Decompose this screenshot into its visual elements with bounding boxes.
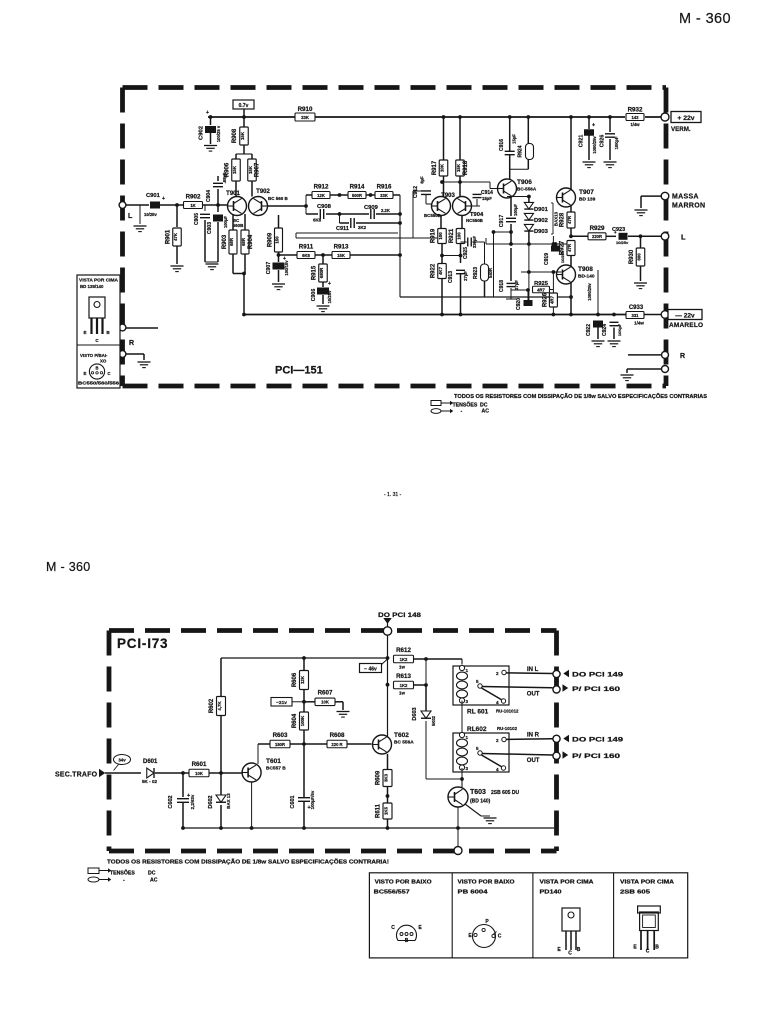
svg-text:560B: 560B bbox=[233, 223, 245, 228]
svg-text:C: C bbox=[498, 934, 502, 940]
svg-text:M - 360: M - 360 bbox=[46, 560, 90, 574]
svg-text:1K2: 1K2 bbox=[400, 657, 408, 662]
svg-text:D603: D603 bbox=[412, 707, 418, 720]
svg-text:C924: C924 bbox=[602, 324, 608, 336]
svg-text:C902: C902 bbox=[199, 126, 205, 140]
svg-text:33K: 33K bbox=[380, 193, 388, 198]
svg-text:1w: 1w bbox=[399, 691, 405, 696]
svg-text:VISTA POR CIMA: VISTA POR CIMA bbox=[620, 879, 675, 885]
svg-text:68R: 68R bbox=[241, 237, 246, 246]
svg-text:SEC.TRAFO: SEC.TRAFO bbox=[55, 772, 98, 779]
svg-text:VISTO POR BAIXO: VISTO POR BAIXO bbox=[458, 879, 515, 885]
svg-text:VISTO POR BAIXO: VISTO POR BAIXO bbox=[375, 879, 432, 885]
svg-text:15pF: 15pF bbox=[482, 196, 492, 201]
svg-text:C909: C909 bbox=[364, 205, 379, 211]
svg-text:RU-10102: RU-10102 bbox=[497, 726, 518, 731]
svg-text:R603: R603 bbox=[273, 732, 288, 739]
svg-text:1000/25v: 1000/25v bbox=[587, 283, 592, 301]
svg-text:220R: 220R bbox=[592, 234, 602, 239]
svg-text:R909: R909 bbox=[268, 232, 274, 247]
svg-text:L: L bbox=[681, 233, 686, 242]
svg-text:R910: R910 bbox=[298, 106, 313, 113]
svg-text:15µF: 15µF bbox=[512, 134, 517, 144]
svg-text:C911: C911 bbox=[336, 226, 349, 232]
svg-text:PD140: PD140 bbox=[540, 889, 562, 895]
svg-text:331: 331 bbox=[632, 313, 640, 318]
svg-text:33K: 33K bbox=[301, 115, 309, 120]
svg-text:1K5: 1K5 bbox=[384, 806, 389, 815]
svg-text:C907: C907 bbox=[266, 262, 272, 275]
svg-text:B: B bbox=[577, 947, 581, 953]
svg-text:TENSÕES: TENSÕES bbox=[110, 870, 135, 877]
svg-text:R919: R919 bbox=[431, 228, 437, 243]
svg-text:C901: C901 bbox=[146, 193, 161, 199]
svg-text:TENSÕES: TENSÕES bbox=[453, 402, 478, 409]
svg-text:600: 600 bbox=[637, 253, 642, 261]
svg-text:C921: C921 bbox=[579, 135, 585, 148]
svg-text:OUT: OUT bbox=[527, 692, 540, 698]
svg-text:5K - 02: 5K - 02 bbox=[142, 779, 158, 784]
svg-text:-: - bbox=[461, 409, 463, 415]
svg-text:0.7v: 0.7v bbox=[239, 103, 249, 109]
svg-text:C918: C918 bbox=[499, 280, 505, 292]
svg-text:MARRON: MARRON bbox=[672, 203, 705, 210]
svg-text:47K: 47K bbox=[173, 232, 178, 241]
svg-text:MASSA: MASSA bbox=[672, 194, 699, 201]
svg-text:1/4w: 1/4w bbox=[634, 321, 644, 326]
svg-text:R606: R606 bbox=[292, 672, 298, 687]
svg-text:BC-556A: BC-556A bbox=[517, 187, 537, 192]
svg-text:10KpF: 10KpF bbox=[617, 323, 622, 336]
svg-text:PB 6004: PB 6004 bbox=[458, 889, 488, 895]
svg-text:NC550B: NC550B bbox=[466, 218, 483, 223]
svg-text:B: B bbox=[95, 366, 98, 371]
svg-text:DO PCI 149: DO PCI 149 bbox=[572, 672, 624, 679]
svg-text:C916: C916 bbox=[499, 139, 505, 151]
svg-text:C913: C913 bbox=[448, 271, 454, 283]
svg-text:R918: R918 bbox=[463, 160, 469, 175]
svg-text:TODOS OS RESISTORES COM DISSIP: TODOS OS RESISTORES COM DISSIPAÇÃO DE 1/… bbox=[454, 393, 708, 400]
svg-text:2: 2 bbox=[496, 738, 499, 743]
svg-text:R911: R911 bbox=[299, 244, 314, 251]
svg-text:C904: C904 bbox=[206, 190, 212, 202]
svg-text:BD-140: BD-140 bbox=[578, 274, 595, 280]
svg-text:T908: T908 bbox=[578, 266, 593, 273]
svg-text:100K: 100K bbox=[300, 715, 305, 726]
svg-text:D601: D601 bbox=[143, 759, 158, 765]
svg-text:10K: 10K bbox=[440, 163, 445, 172]
svg-text:C908: C908 bbox=[317, 204, 332, 210]
svg-text:1: 1 bbox=[466, 735, 469, 740]
svg-text:27µF: 27µF bbox=[514, 280, 519, 290]
svg-text:15K: 15K bbox=[456, 163, 461, 172]
svg-text:10/25v: 10/25v bbox=[327, 290, 332, 303]
svg-text:R604: R604 bbox=[292, 713, 298, 728]
svg-text:100: 100 bbox=[438, 232, 443, 240]
svg-text:1w: 1w bbox=[399, 665, 405, 670]
svg-text:6K8: 6K8 bbox=[313, 218, 322, 223]
svg-text:R908: R908 bbox=[232, 128, 238, 143]
svg-text:T603: T603 bbox=[470, 789, 486, 796]
svg-text:PCI-I73: PCI-I73 bbox=[117, 636, 168, 651]
svg-text:220 R: 220 R bbox=[331, 742, 342, 747]
svg-text:3K3: 3K3 bbox=[384, 773, 389, 782]
svg-text:68R: 68R bbox=[229, 237, 234, 246]
svg-text:DO PCI 148: DO PCI 148 bbox=[378, 612, 421, 619]
svg-text:1: 1 bbox=[466, 668, 469, 673]
svg-text:R916: R916 bbox=[377, 184, 392, 191]
svg-text:540R: 540R bbox=[488, 268, 493, 278]
svg-text:1K2: 1K2 bbox=[400, 683, 408, 688]
svg-text:R923: R923 bbox=[473, 267, 479, 279]
svg-text:(BD 140): (BD 140) bbox=[470, 799, 491, 805]
svg-text:T601: T601 bbox=[266, 758, 281, 765]
svg-text:BD 139/140: BD 139/140 bbox=[80, 284, 104, 289]
svg-text:500R: 500R bbox=[352, 193, 362, 198]
svg-text:1000/25v: 1000/25v bbox=[592, 136, 597, 154]
svg-text:100µF: 100µF bbox=[223, 216, 228, 228]
svg-text:VISTO P/BAI-: VISTO P/BAI- bbox=[80, 353, 108, 358]
svg-text:10/25v: 10/25v bbox=[560, 250, 565, 263]
svg-text:4,7K: 4,7K bbox=[217, 701, 222, 711]
svg-text:143: 143 bbox=[632, 115, 640, 120]
svg-text:R907: R907 bbox=[255, 162, 261, 177]
svg-text:R912: R912 bbox=[314, 184, 329, 191]
svg-text:R613: R613 bbox=[396, 673, 411, 680]
svg-text:C933: C933 bbox=[629, 305, 644, 311]
svg-text:— 22v: — 22v bbox=[675, 313, 695, 320]
svg-text:T602: T602 bbox=[394, 732, 409, 739]
svg-text:10K: 10K bbox=[321, 700, 329, 705]
svg-text:R932: R932 bbox=[628, 107, 643, 114]
svg-text:R609: R609 bbox=[376, 770, 382, 785]
svg-text:T906: T906 bbox=[517, 179, 532, 186]
svg-text:4R7: 4R7 bbox=[549, 295, 554, 304]
svg-text:-: - bbox=[123, 878, 125, 884]
svg-text:100/10v: 100/10v bbox=[284, 260, 289, 276]
svg-text:100: 100 bbox=[457, 232, 462, 240]
svg-text:15K: 15K bbox=[248, 165, 253, 174]
svg-text:27µF: 27µF bbox=[463, 271, 468, 281]
svg-text:C922: C922 bbox=[586, 324, 592, 336]
svg-text:XO: XO bbox=[100, 359, 107, 364]
svg-text:4K7: 4K7 bbox=[438, 266, 443, 275]
svg-text:15K: 15K bbox=[240, 131, 245, 140]
svg-text:+ 22v: + 22v bbox=[677, 115, 694, 122]
svg-text:VISTA POR CIMA: VISTA POR CIMA bbox=[540, 879, 595, 885]
svg-text:10K: 10K bbox=[195, 771, 203, 776]
svg-text:2,2/63v: 2,2/63v bbox=[190, 794, 195, 809]
svg-text:+: + bbox=[162, 196, 165, 202]
svg-text:1K: 1K bbox=[190, 203, 195, 208]
svg-text:C919: C919 bbox=[544, 253, 550, 265]
svg-text:47R: 47R bbox=[567, 243, 572, 252]
svg-text:P/ PCI 160: P/ PCI 160 bbox=[572, 686, 621, 693]
svg-text:5: 5 bbox=[476, 746, 479, 751]
svg-text:3: 3 bbox=[466, 699, 469, 704]
svg-text:+: + bbox=[614, 230, 617, 235]
svg-text:47R: 47R bbox=[567, 215, 572, 224]
svg-text:+: + bbox=[592, 123, 595, 129]
svg-text:DO PCI 149: DO PCI 149 bbox=[572, 736, 624, 743]
svg-text:C925: C925 bbox=[463, 247, 469, 259]
svg-text:R601: R601 bbox=[192, 761, 207, 768]
svg-text:T901: T901 bbox=[226, 191, 240, 197]
svg-text:T903: T903 bbox=[441, 193, 455, 199]
svg-text:VERM.: VERM. bbox=[671, 126, 691, 133]
svg-text:150: 150 bbox=[275, 236, 280, 244]
svg-text:T907: T907 bbox=[579, 189, 594, 196]
svg-text:R611: R611 bbox=[376, 803, 382, 818]
svg-text:R913: R913 bbox=[334, 244, 349, 251]
svg-text:10/25v: 10/25v bbox=[616, 240, 629, 245]
svg-text:3: 3 bbox=[466, 766, 469, 771]
svg-text:BC 560 B: BC 560 B bbox=[268, 196, 289, 201]
svg-text:RL602: RL602 bbox=[467, 726, 487, 733]
svg-text:C: C bbox=[646, 949, 650, 955]
svg-text:C912: C912 bbox=[413, 186, 419, 198]
svg-text:R612: R612 bbox=[396, 647, 411, 654]
svg-text:−21v: −21v bbox=[276, 700, 287, 706]
svg-text:1/4w: 1/4w bbox=[630, 122, 640, 127]
svg-text:TODOS OS RESISTORES COM DISS: TODOS OS RESISTORES COM DISSIPAÇÃO DE 1/… bbox=[107, 859, 389, 866]
svg-text:BD 139: BD 139 bbox=[579, 197, 596, 203]
svg-text:34v: 34v bbox=[118, 758, 126, 763]
svg-text:C920: C920 bbox=[516, 298, 522, 310]
svg-text:R930: R930 bbox=[629, 249, 635, 264]
svg-text:- 1. 31 -: - 1. 31 - bbox=[384, 492, 402, 498]
svg-text:150R: 150R bbox=[275, 742, 285, 747]
svg-text:R914: R914 bbox=[350, 184, 365, 191]
svg-text:E: E bbox=[84, 371, 87, 376]
svg-text:R922: R922 bbox=[431, 263, 437, 278]
svg-text:R924: R924 bbox=[518, 145, 524, 157]
svg-text:10/25v: 10/25v bbox=[144, 212, 157, 217]
svg-text:BC550B: BC550B bbox=[424, 213, 441, 218]
svg-text:4: 4 bbox=[496, 700, 499, 705]
svg-text:B: B bbox=[655, 945, 659, 951]
svg-text:R607: R607 bbox=[318, 690, 333, 697]
svg-text:C: C bbox=[391, 925, 395, 931]
svg-text:R902: R902 bbox=[186, 194, 201, 201]
svg-text:2K2: 2K2 bbox=[358, 225, 367, 230]
svg-text:R928: R928 bbox=[560, 212, 566, 227]
svg-text:6K8: 6K8 bbox=[302, 253, 310, 258]
svg-text:2: 2 bbox=[496, 671, 499, 676]
svg-text:AC: AC bbox=[150, 878, 158, 884]
svg-text:E: E bbox=[83, 330, 86, 335]
svg-text:BC550/560/556: BC550/560/556 bbox=[78, 381, 120, 386]
svg-text:R: R bbox=[680, 353, 685, 360]
svg-text:AC: AC bbox=[482, 409, 490, 415]
svg-text:.68µF: .68µF bbox=[222, 172, 227, 183]
svg-text:D901: D901 bbox=[534, 207, 549, 213]
svg-text:IN R: IN R bbox=[527, 733, 540, 739]
svg-text:10KpF: 10KpF bbox=[614, 136, 619, 149]
svg-text:D903: D903 bbox=[534, 229, 549, 235]
svg-text:100/25 v: 100/25 v bbox=[216, 125, 221, 142]
svg-text:15K: 15K bbox=[232, 165, 237, 174]
svg-text:C: C bbox=[568, 951, 572, 957]
svg-text:RL 601: RL 601 bbox=[467, 709, 489, 716]
svg-text:BAX13: BAX13 bbox=[554, 211, 559, 226]
svg-text:D902: D902 bbox=[534, 218, 548, 224]
svg-text:+: + bbox=[206, 110, 209, 116]
svg-text:C917: C917 bbox=[499, 215, 505, 228]
svg-text:− 46v: − 46v bbox=[364, 667, 377, 673]
svg-text:VISTA POR CIMA: VISTA POR CIMA bbox=[79, 278, 119, 283]
svg-text:C903: C903 bbox=[207, 222, 213, 234]
svg-text:RU-101012: RU-101012 bbox=[496, 709, 519, 714]
svg-text:R929: R929 bbox=[590, 225, 605, 232]
svg-text:12K: 12K bbox=[300, 675, 305, 684]
svg-text:DC: DC bbox=[148, 871, 156, 877]
svg-text:BAX 13: BAX 13 bbox=[226, 793, 231, 809]
svg-text:R901: R901 bbox=[166, 229, 172, 244]
svg-text:IN L: IN L bbox=[527, 667, 539, 673]
svg-text:OUT: OUT bbox=[527, 758, 540, 764]
svg-text:R608: R608 bbox=[330, 732, 345, 739]
svg-text:BC 556A: BC 556A bbox=[394, 740, 414, 746]
svg-text:M - 360: M - 360 bbox=[679, 11, 731, 27]
svg-text:C601: C601 bbox=[290, 795, 296, 808]
svg-text:4: 4 bbox=[496, 767, 499, 772]
svg-text:BC556/557: BC556/557 bbox=[374, 889, 410, 895]
svg-text:R602: R602 bbox=[209, 698, 215, 713]
svg-text:R904: R904 bbox=[248, 234, 254, 249]
svg-text:2SB 605 DU: 2SB 605 DU bbox=[491, 790, 519, 796]
svg-text:+: + bbox=[328, 281, 331, 287]
svg-text:P/ PCI 160: P/ PCI 160 bbox=[572, 753, 621, 760]
svg-text:100µF: 100µF bbox=[513, 204, 518, 216]
svg-text:R915: R915 bbox=[312, 265, 318, 280]
svg-text:2SB 605: 2SB 605 bbox=[620, 889, 650, 895]
svg-text:T902: T902 bbox=[256, 189, 270, 195]
svg-text:D602: D602 bbox=[208, 795, 214, 808]
svg-text:4R7: 4R7 bbox=[537, 287, 545, 292]
svg-text:R921: R921 bbox=[449, 228, 455, 243]
svg-text:R903: R903 bbox=[222, 234, 228, 249]
svg-text:R: R bbox=[129, 340, 134, 347]
svg-text:B: B bbox=[405, 938, 409, 944]
svg-text:C906: C906 bbox=[311, 289, 317, 302]
svg-text:C926: C926 bbox=[600, 135, 606, 148]
svg-text:BC557 B: BC557 B bbox=[266, 766, 286, 772]
svg-text:12K: 12K bbox=[317, 193, 325, 198]
svg-text:680R: 680R bbox=[319, 267, 324, 278]
svg-text:5: 5 bbox=[476, 679, 479, 684]
svg-text:100µF/5v: 100µF/5v bbox=[310, 790, 315, 809]
svg-text:15K: 15K bbox=[337, 253, 345, 258]
svg-text:C905: C905 bbox=[194, 213, 200, 225]
svg-text:C602: C602 bbox=[168, 795, 174, 808]
svg-text:6µF: 6µF bbox=[420, 176, 425, 184]
svg-text:2.2K: 2.2K bbox=[381, 208, 390, 213]
svg-text:AMARELO: AMARELO bbox=[669, 322, 703, 329]
svg-text:L: L bbox=[128, 213, 133, 220]
svg-text:R926: R926 bbox=[542, 292, 548, 307]
svg-text:R917: R917 bbox=[432, 160, 438, 175]
svg-text:PCI—151: PCI—151 bbox=[275, 365, 323, 377]
svg-text:5K02: 5K02 bbox=[431, 715, 436, 726]
